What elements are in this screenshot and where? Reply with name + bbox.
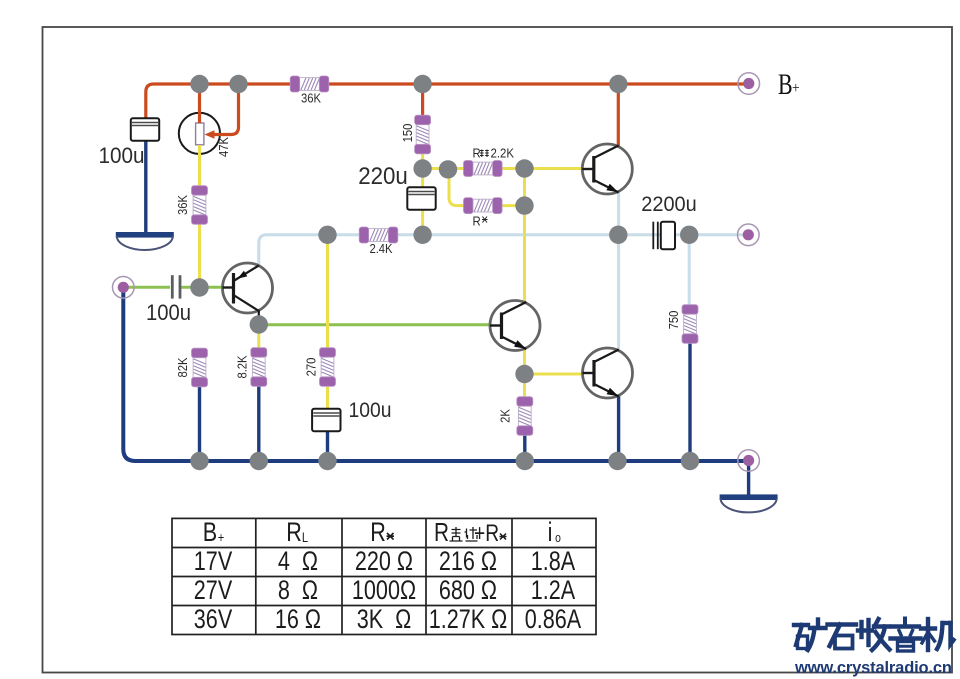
svg-text:36K: 36K <box>301 91 321 106</box>
svg-text:270: 270 <box>304 357 319 376</box>
svg-text:+R: +R <box>474 519 499 547</box>
svg-text:0.86A: 0.86A <box>525 605 582 635</box>
svg-text:o: o <box>555 531 561 545</box>
svg-text:216 Ω: 216 Ω <box>439 547 497 577</box>
svg-text:R: R <box>434 518 449 547</box>
svg-text:i: i <box>548 518 553 548</box>
svg-text:680 Ω: 680 Ω <box>439 576 497 606</box>
svg-text:1.8A: 1.8A <box>531 547 576 577</box>
svg-text:B: B <box>203 518 217 548</box>
svg-text:2.4K: 2.4K <box>369 241 392 256</box>
svg-text:100u: 100u <box>349 399 392 422</box>
svg-text:36V: 36V <box>194 605 233 635</box>
svg-text:1000Ω: 1000Ω <box>352 576 416 606</box>
svg-text:L: L <box>302 530 308 545</box>
svg-text:8.2K: 8.2K <box>235 355 250 378</box>
svg-text:R: R <box>370 518 386 548</box>
svg-text:R: R <box>286 518 302 548</box>
svg-text:2.2K: 2.2K <box>491 146 515 161</box>
svg-text:36K: 36K <box>175 195 190 215</box>
svg-text:100u: 100u <box>99 143 145 168</box>
svg-text:1.27K Ω: 1.27K Ω <box>429 605 508 635</box>
svg-text:100u: 100u <box>146 301 191 325</box>
svg-text:+: + <box>218 530 225 545</box>
svg-text:B: B <box>778 68 793 101</box>
svg-text:82K: 82K <box>175 357 190 377</box>
svg-text:1.2A: 1.2A <box>531 576 576 606</box>
svg-text:220u: 220u <box>358 162 408 189</box>
svg-text:150: 150 <box>400 123 415 142</box>
svg-text:R: R <box>473 214 481 229</box>
svg-text:3K Ω: 3K Ω <box>357 605 412 635</box>
svg-text:4 Ω: 4 Ω <box>278 547 318 577</box>
svg-text:750: 750 <box>666 310 681 329</box>
svg-text:+: + <box>792 80 800 97</box>
svg-text:47K: 47K <box>216 137 231 157</box>
svg-text:16 Ω: 16 Ω <box>275 605 321 635</box>
svg-text:17V: 17V <box>194 547 233 577</box>
svg-text:220 Ω: 220 Ω <box>355 547 413 577</box>
svg-text:www.crystalradio.cn: www.crystalradio.cn <box>794 659 952 677</box>
svg-text:2200u: 2200u <box>641 193 696 217</box>
svg-text:8 Ω: 8 Ω <box>278 576 318 606</box>
svg-text:27V: 27V <box>194 576 233 606</box>
svg-text:R: R <box>473 146 481 161</box>
svg-text:2K: 2K <box>498 409 513 423</box>
